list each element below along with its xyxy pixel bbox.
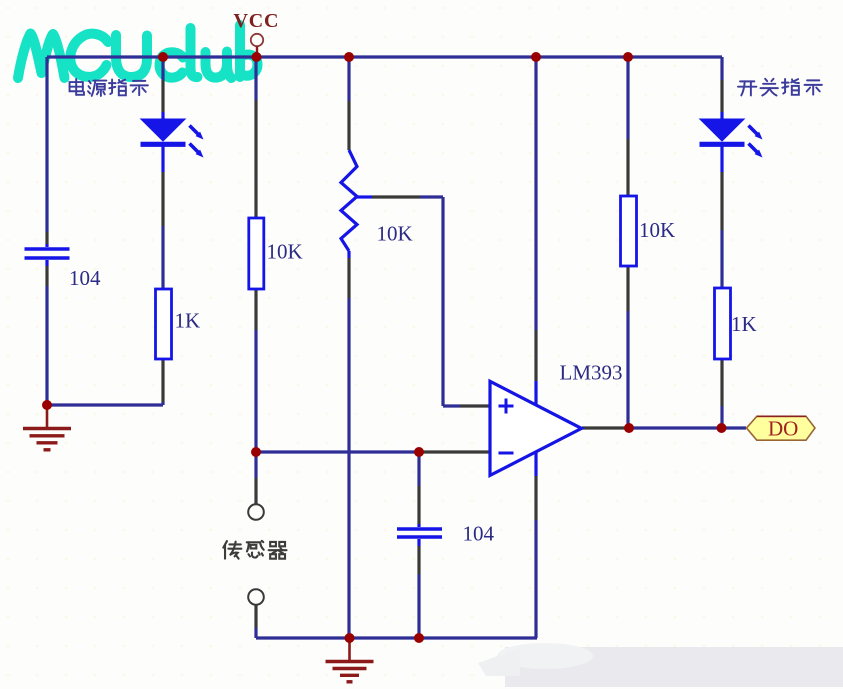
- potentiometer RP 10K zigzag: [341, 150, 357, 251]
- capacitor C1 104: [25, 249, 70, 258]
- VCC terminal circle: [251, 34, 263, 46]
- watermark artifact bottom right: [478, 643, 843, 687]
- resistor R4 1K (right): [715, 288, 731, 359]
- port DO flag: [747, 416, 816, 440]
- wire 10K right branch: [626, 57, 629, 139]
- svg-text:1K: 1K: [731, 312, 757, 336]
- wire bottom rail: [256, 636, 537, 639]
- svg-text:10K: 10K: [639, 218, 675, 242]
- capacitor C2 104: [397, 529, 442, 537]
- resistor R3 10K (right): [621, 196, 637, 266]
- svg-text:10K: 10K: [267, 240, 303, 264]
- wire opamp power upper: [534, 57, 537, 330]
- wire pot wiper tap: [357, 195, 372, 198]
- svg-text:104: 104: [463, 522, 495, 546]
- wire LED2 branch: [720, 57, 723, 80]
- wire LED1 branch: [161, 57, 164, 80]
- wire top VCC rail: [47, 55, 722, 58]
- svg-text:10K: 10K: [377, 222, 413, 246]
- label 传感器 (sensor): [223, 541, 286, 559]
- wire inverting input: [256, 450, 420, 453]
- resistor R1 10K (left): [249, 218, 264, 289]
- wire sensor lower stub: [254, 605, 257, 628]
- svg-text:VCC: VCC: [234, 10, 280, 32]
- op-amp U1 LM393: [490, 381, 582, 475]
- svg-text:104: 104: [69, 266, 101, 290]
- sensor terminal circle lower: [248, 589, 264, 605]
- sensor terminal circle upper: [248, 504, 264, 520]
- wire cap2 branch: [417, 452, 420, 486]
- LED D2 (switch indicator): [700, 119, 763, 158]
- ground (bottom): [326, 638, 374, 682]
- ground (left): [23, 405, 71, 450]
- watermark MCUclub: [18, 25, 258, 78]
- wire sensor upper stub: [254, 452, 257, 478]
- wire left bottom horizontal: [47, 403, 163, 406]
- wire opamp output: [582, 426, 629, 429]
- svg-text:DO: DO: [768, 417, 798, 441]
- wire opamp power lower: [534, 452, 537, 476]
- label 开关指示 (switch indicator): [738, 79, 822, 96]
- resistor R2 1K (left): [156, 289, 172, 359]
- wire 10K left branch: [254, 57, 257, 100]
- wire left branch vertical: [45, 57, 48, 232]
- svg-text:1K: 1K: [175, 309, 201, 333]
- label 电源指示 (power indicator): [70, 79, 148, 96]
- svg-text:LM393: LM393: [560, 361, 623, 385]
- wire pot branch: [347, 57, 350, 101]
- LED D1 (power indicator): [141, 119, 204, 158]
